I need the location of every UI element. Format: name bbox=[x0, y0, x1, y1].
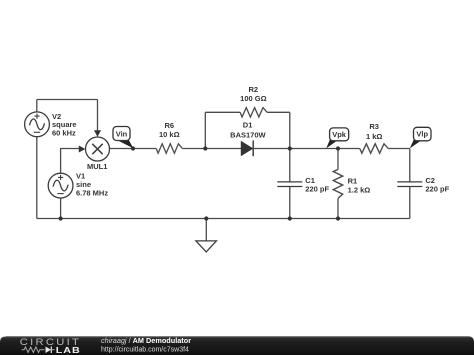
logo resistor squiggle bbox=[22, 347, 45, 353]
svg-text:6.78 MHz: 6.78 MHz bbox=[76, 189, 108, 198]
wire: bottom rail bbox=[37, 218, 410, 220]
svg-text:10 kΩ: 10 kΩ bbox=[159, 130, 180, 139]
wire: C1 branch bottom bbox=[289, 187, 291, 219]
node flag Vlp bbox=[410, 127, 431, 148]
wire: parallel branch top left horizontal bbox=[205, 111, 240, 113]
wire: V1 bottom stub bbox=[60, 198, 62, 219]
label R3 value bbox=[366, 122, 382, 141]
svg-text:220 pF: 220 pF bbox=[305, 185, 329, 194]
svg-text:Vpk: Vpk bbox=[332, 130, 347, 139]
wire: top rail down to MUL1 input bbox=[97, 100, 99, 132]
wire: R1 branch bottom bbox=[337, 199, 339, 219]
label C2 value bbox=[425, 176, 449, 194]
resistor R1 bbox=[333, 169, 342, 198]
label D1 value bbox=[230, 121, 266, 140]
junction dot: R1 bottom bbox=[336, 216, 340, 220]
junction dot: Vin attach bbox=[131, 146, 135, 150]
logo CIRCUIT text bbox=[20, 338, 81, 348]
svg-text:V1: V1 bbox=[76, 171, 85, 180]
arrowhead into MUL1 left bbox=[79, 146, 86, 153]
svg-text:1 kΩ: 1 kΩ bbox=[366, 132, 382, 141]
credit line url bbox=[101, 347, 189, 354]
voltage source V1 bbox=[48, 173, 73, 198]
logo diode symbol bbox=[46, 347, 55, 354]
svg-text:R6: R6 bbox=[165, 121, 175, 130]
voltage source V2 bbox=[25, 112, 50, 137]
diode D1 bbox=[241, 141, 253, 157]
junction dot: parallel branch left bbox=[203, 146, 207, 150]
wire: C1 node to R3 bbox=[290, 148, 360, 150]
node flag Vin bbox=[113, 127, 133, 149]
wire: parallel branch right vertical bbox=[289, 112, 291, 148]
wire: MUL1 output to R6 bbox=[110, 148, 157, 150]
svg-text:D1: D1 bbox=[243, 121, 253, 130]
wire: right rail C2 bottom bbox=[409, 187, 411, 219]
svg-text:LAB: LAB bbox=[56, 346, 81, 355]
svg-text:chiraagj / AM Demodulator: chiraagj / AM Demodulator bbox=[101, 336, 191, 345]
junction dot: ground node bbox=[204, 216, 208, 220]
svg-text:BAS170W: BAS170W bbox=[230, 131, 266, 140]
svg-text:60 kHz: 60 kHz bbox=[52, 128, 76, 137]
junction dot: C1 node top bbox=[288, 146, 292, 150]
svg-text:Vlp: Vlp bbox=[416, 130, 428, 139]
footer banner bbox=[0, 336, 474, 355]
wire: left rail V2 bottom down to bottom rail bbox=[36, 137, 38, 219]
svg-text:220 pF: 220 pF bbox=[425, 185, 449, 194]
multiplier MUL1 bbox=[86, 137, 110, 161]
wire: C1 branch top bbox=[289, 149, 291, 182]
logo LAB text bbox=[56, 346, 81, 355]
wire: parallel branch top right horizontal bbox=[267, 111, 290, 113]
junction dot: V1 bottom bbox=[59, 216, 63, 220]
resistor R3 bbox=[360, 144, 389, 153]
wire: R1 branch top bbox=[337, 149, 339, 170]
wire: D1 cathode to C1 node bbox=[254, 148, 290, 150]
svg-text:1.2 kΩ: 1.2 kΩ bbox=[348, 185, 371, 194]
capacitor C1 bbox=[277, 182, 302, 187]
svg-text:100 GΩ: 100 GΩ bbox=[240, 94, 266, 103]
junction dot: R1 node top bbox=[336, 146, 340, 150]
svg-text:Vin: Vin bbox=[116, 129, 128, 138]
label C1 value bbox=[305, 176, 329, 194]
label R1 value bbox=[348, 176, 371, 194]
resistor R6 bbox=[156, 144, 182, 153]
capacitor C2 bbox=[397, 182, 422, 187]
node flag Vpk bbox=[326, 128, 349, 148]
svg-text:R2: R2 bbox=[249, 85, 259, 94]
wire: parallel branch left vertical bbox=[204, 112, 206, 148]
junction dot: C1 bottom bbox=[288, 216, 292, 220]
wire: V2 top stub to top rail bbox=[36, 100, 38, 112]
label V1 value bbox=[76, 171, 108, 197]
svg-text:sine: sine bbox=[76, 180, 91, 189]
label R2 value bbox=[240, 85, 266, 103]
svg-text:R1: R1 bbox=[348, 176, 358, 185]
wire: R3 to Vlp corner bbox=[388, 148, 409, 150]
label V2 value bbox=[52, 112, 77, 137]
label R6 value bbox=[159, 121, 180, 139]
svg-text:http://circuitlab.com/c7sw3f4: http://circuitlab.com/c7sw3f4 bbox=[101, 347, 189, 354]
svg-text:R3: R3 bbox=[369, 122, 379, 131]
wire: top rail horizontal bbox=[37, 99, 98, 101]
label MUL1 bbox=[87, 162, 107, 171]
arrowhead into MUL1 top bbox=[94, 130, 101, 137]
svg-text:MUL1: MUL1 bbox=[87, 162, 107, 171]
wire: right rail C2 top bbox=[409, 149, 411, 182]
wire: V1 top stub and horizontal into MUL1 bbox=[61, 149, 80, 174]
ground bbox=[196, 241, 217, 252]
credit line author/title bbox=[101, 336, 191, 345]
wire: R6 to D1 anode bbox=[182, 148, 241, 150]
wire: ground stub bbox=[205, 219, 207, 241]
resistor R2 bbox=[240, 108, 267, 117]
